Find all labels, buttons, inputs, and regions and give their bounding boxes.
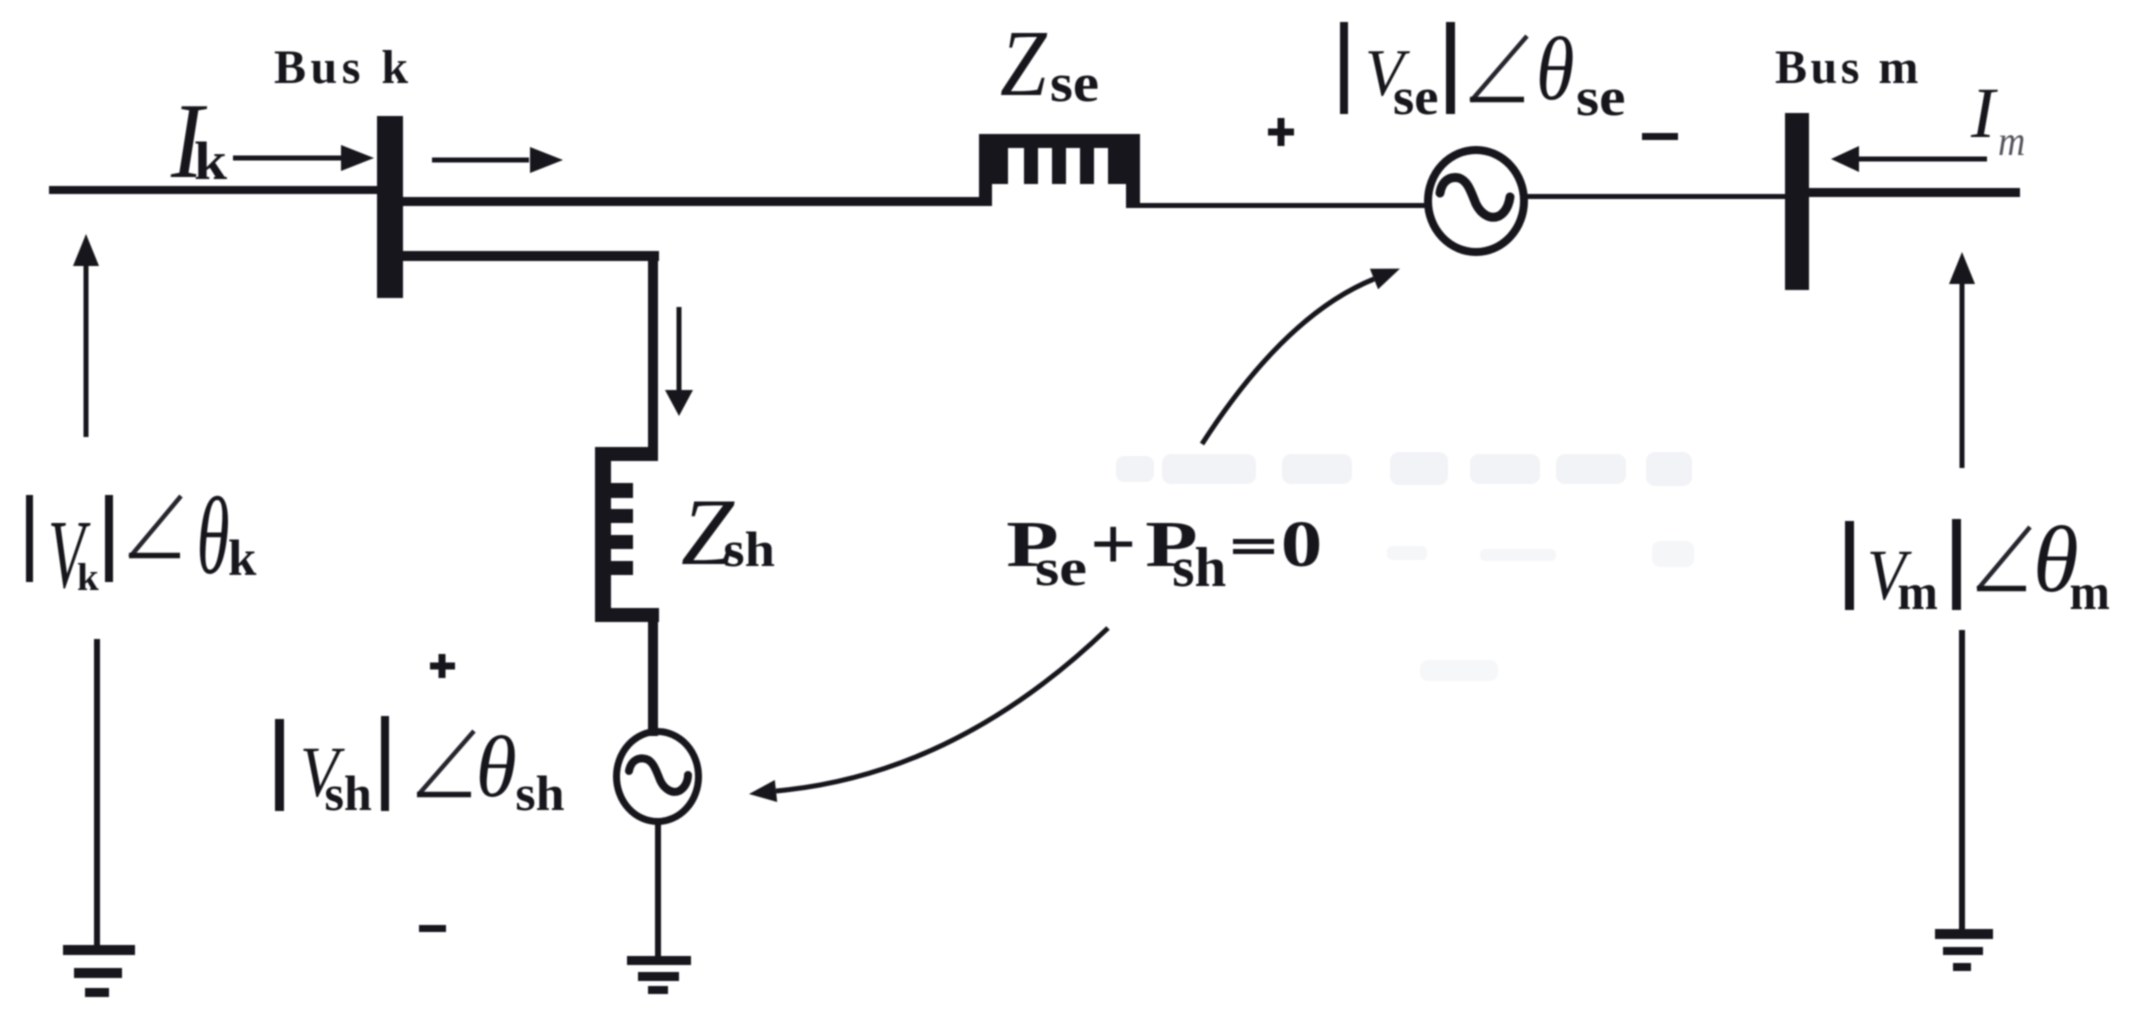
arrow flow right of bus k xyxy=(432,158,529,163)
wire bus k to Zse xyxy=(403,197,984,206)
ac source Vsh xyxy=(617,732,699,822)
arrow Vm up xyxy=(1949,252,1975,284)
ac source Vse xyxy=(1428,150,1524,252)
wire Vsh to ground xyxy=(655,818,661,957)
svg-text:m: m xyxy=(1998,117,2025,164)
label |Vk|∠θk xyxy=(26,495,33,582)
wire Vm lower segment xyxy=(1959,630,1965,929)
svg-text:k: k xyxy=(228,531,257,587)
svg-text:Z: Z xyxy=(1000,13,1048,117)
svg-text:I: I xyxy=(1970,73,1998,153)
svg-text:θ: θ xyxy=(197,475,230,597)
svg-text:k: k xyxy=(77,556,99,599)
arrow shunt current down xyxy=(677,307,682,392)
label − (series) xyxy=(1642,133,1678,140)
wire Zsh to Vsh source xyxy=(648,622,658,736)
svg-text:θ: θ xyxy=(476,719,517,815)
svg-text:k: k xyxy=(194,131,227,191)
wire main line left of bus k xyxy=(49,186,378,194)
arrow curved to series source xyxy=(1202,279,1374,444)
wire right of bus m xyxy=(1809,188,2020,197)
wire Zse to Vse source xyxy=(1140,203,1430,208)
inductor Zse xyxy=(979,134,1140,208)
wire shunt tap vertical xyxy=(648,251,658,451)
bus k bar xyxy=(377,116,403,298)
svg-text:se: se xyxy=(1576,67,1625,127)
svg-text:θ: θ xyxy=(1536,20,1574,119)
svg-text:se: se xyxy=(1050,54,1099,113)
label |Vse|∠θse xyxy=(1340,22,1348,114)
svg-text:m: m xyxy=(1898,564,1938,620)
label |Vsh|∠θsh xyxy=(275,719,284,811)
label + (shunt) xyxy=(430,654,455,678)
svg-text:Bus m: Bus m xyxy=(1775,41,1922,94)
wire Vk lower segment xyxy=(94,639,100,947)
svg-text:sh: sh xyxy=(1172,537,1226,598)
inductor Zsh xyxy=(595,447,659,622)
svg-text:Bus k: Bus k xyxy=(274,41,413,94)
svg-text:0: 0 xyxy=(1281,508,1323,581)
arrow Im xyxy=(1858,157,1987,162)
wire shunt tap horizontal xyxy=(403,251,659,261)
ground left xyxy=(63,945,135,955)
svg-text:m: m xyxy=(2070,564,2110,620)
ground shunt xyxy=(627,956,691,965)
svg-text:sh: sh xyxy=(515,767,564,822)
label − (shunt) xyxy=(419,925,446,932)
svg-text:sh: sh xyxy=(325,765,372,821)
wire Vse source to bus m xyxy=(1524,194,1785,199)
label |Vm|∠θm xyxy=(1845,521,1854,610)
svg-text:se: se xyxy=(1035,540,1087,597)
svg-text:sh: sh xyxy=(723,522,775,577)
arrow curved to shunt source xyxy=(776,628,1108,791)
svg-text:+: + xyxy=(1090,503,1136,585)
svg-text:se: se xyxy=(1393,67,1438,126)
arrow Vk up xyxy=(73,234,99,266)
faint ghost marks (erased text artifacts) xyxy=(1116,452,1694,681)
arrow Ik xyxy=(233,156,345,161)
ground right xyxy=(1935,929,1993,939)
label + (series) xyxy=(1268,118,1294,146)
bus m bar xyxy=(1785,113,1809,290)
